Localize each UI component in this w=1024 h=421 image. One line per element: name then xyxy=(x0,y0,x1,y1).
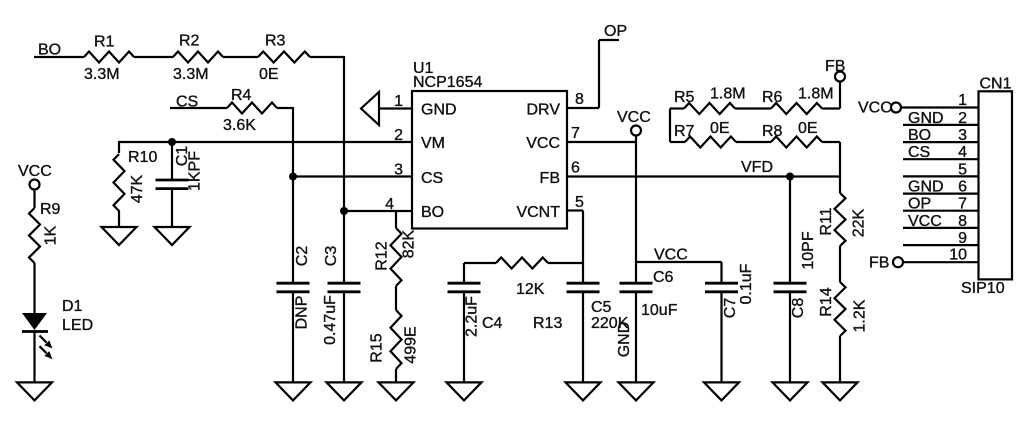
resistor R9 xyxy=(29,208,40,263)
IC U1 box xyxy=(412,91,567,229)
capacitor C6 xyxy=(635,262,637,283)
ground D1 xyxy=(17,382,52,400)
resistor R1 xyxy=(84,52,134,63)
wire R9 to D1 xyxy=(33,263,35,313)
svg-text:6: 6 xyxy=(958,179,967,196)
LED arrow 1 xyxy=(40,336,47,343)
svg-text:VCNT: VCNT xyxy=(516,204,560,221)
svg-text:R13: R13 xyxy=(533,315,562,332)
svg-text:R4: R4 xyxy=(231,87,252,104)
svg-text:VCC: VCC xyxy=(654,247,688,264)
svg-text:3.3M: 3.3M xyxy=(173,66,209,83)
capacitor C3 xyxy=(343,211,345,283)
ground C1 xyxy=(155,227,190,245)
resistor R5 xyxy=(684,103,735,114)
wire CN1 pin 5 xyxy=(903,175,979,177)
svg-text:CS: CS xyxy=(421,170,443,187)
resistor R15 xyxy=(391,310,402,369)
svg-text:3.3M: 3.3M xyxy=(84,66,120,83)
wire D1 to ground xyxy=(33,332,35,384)
capacitor C4 xyxy=(463,263,465,283)
svg-text:GND: GND xyxy=(421,102,457,119)
wire R11-R14 xyxy=(839,246,841,282)
wire C2 to ground xyxy=(292,292,294,383)
wire CS net xyxy=(170,107,227,109)
wire VM net (pin 2 row) xyxy=(119,141,412,143)
node pin4 junction xyxy=(340,207,348,215)
svg-text:FB: FB xyxy=(540,170,560,187)
wire R6 to FB terminal xyxy=(822,107,840,109)
svg-text:R12: R12 xyxy=(374,241,391,270)
svg-text:DNP: DNP xyxy=(294,296,311,330)
svg-text:82K: 82K xyxy=(401,229,418,258)
node C1 junction xyxy=(168,138,176,146)
wire CN1 pin 7 xyxy=(903,210,979,212)
wire CN1 pin 10 xyxy=(903,261,979,263)
wire R14 to ground xyxy=(839,336,841,383)
svg-text:0E: 0E xyxy=(710,120,730,137)
wire R2-R3 xyxy=(223,56,258,58)
wire CN1 pin 6 xyxy=(903,193,979,195)
wire CS column vertical xyxy=(292,107,294,177)
wire pin 6 VFD net xyxy=(567,175,840,177)
svg-text:GND: GND xyxy=(908,110,944,127)
wire VCC rail vertical xyxy=(635,135,637,262)
wire R1-R2 xyxy=(134,56,173,58)
resistor R2 xyxy=(173,52,223,63)
svg-text:D1: D1 xyxy=(62,298,83,315)
svg-text:47K: 47K xyxy=(129,174,146,203)
svg-text:C6: C6 xyxy=(653,269,674,286)
svg-text:3: 3 xyxy=(958,127,967,144)
svg-text:VCC: VCC xyxy=(526,135,560,152)
svg-text:1KPF: 1KPF xyxy=(187,151,204,191)
wire pin 1 stub xyxy=(379,107,412,109)
svg-text:VM: VM xyxy=(421,135,445,152)
svg-text:VCC: VCC xyxy=(908,213,942,230)
svg-text:2: 2 xyxy=(958,110,967,127)
wire CN1 pin 8 xyxy=(903,227,979,229)
svg-text:10uF: 10uF xyxy=(641,302,678,319)
wire pin 7 stub xyxy=(567,141,636,143)
wire pin 8 stub xyxy=(567,107,599,109)
svg-text:C2: C2 xyxy=(294,246,311,267)
wire R7 row left xyxy=(670,141,685,143)
svg-text:3.6K: 3.6K xyxy=(223,117,256,134)
ground C2 xyxy=(276,382,311,400)
svg-text:1K: 1K xyxy=(43,225,60,245)
wire VCC to R9 xyxy=(33,189,35,208)
ground R15 xyxy=(379,382,414,400)
svg-text:0E: 0E xyxy=(798,120,818,137)
svg-text:0.47uF: 0.47uF xyxy=(322,295,339,345)
node FB terminal top xyxy=(835,72,845,82)
wire pin 4 row xyxy=(344,210,412,212)
svg-text:BO: BO xyxy=(421,204,444,221)
wire R10 to ground xyxy=(118,210,120,228)
svg-text:1.2K: 1.2K xyxy=(852,299,869,332)
svg-text:7: 7 xyxy=(571,125,580,142)
ground R14 xyxy=(823,382,858,400)
resistor R4 xyxy=(227,103,277,114)
resistor R14 xyxy=(835,282,846,336)
svg-text:10: 10 xyxy=(949,247,967,264)
svg-text:1.8M: 1.8M xyxy=(710,86,746,103)
svg-text:22K: 22K xyxy=(851,208,868,237)
wire C5 to ground xyxy=(582,292,584,383)
ground arrow pin 1 xyxy=(361,92,379,125)
svg-text:7: 7 xyxy=(958,196,967,213)
svg-text:CS: CS xyxy=(908,144,930,161)
svg-text:VCC: VCC xyxy=(617,109,651,126)
wire CN1 pin 1 xyxy=(901,106,979,108)
wire C6 to ground xyxy=(635,292,637,383)
svg-text:R2: R2 xyxy=(179,33,200,50)
ground C8 xyxy=(773,382,808,400)
resistor R6 xyxy=(771,103,822,114)
svg-text:VCC: VCC xyxy=(18,163,52,180)
LED arrow 2 xyxy=(40,346,47,353)
svg-text:OP: OP xyxy=(604,23,627,40)
svg-text:R15: R15 xyxy=(369,333,386,362)
wire pin 3 row xyxy=(293,175,412,177)
wire R15 to ground xyxy=(395,369,397,383)
svg-text:GND: GND xyxy=(908,179,944,196)
capacitor C2 xyxy=(292,177,294,284)
svg-text:R3: R3 xyxy=(265,33,286,50)
wire R13 row left xyxy=(464,262,496,264)
wire R5-R6 xyxy=(735,107,771,109)
svg-text:R11: R11 xyxy=(818,207,835,235)
svg-text:NCP1654: NCP1654 xyxy=(413,74,482,91)
svg-text:DRV: DRV xyxy=(527,102,561,119)
svg-text:C3: C3 xyxy=(323,246,340,267)
svg-text:1: 1 xyxy=(958,92,967,109)
svg-text:CN1: CN1 xyxy=(980,76,1012,93)
resistor R7 xyxy=(685,137,736,148)
wire R8 to VFD column xyxy=(822,141,840,143)
resistor R8 xyxy=(771,137,822,148)
ground C4 xyxy=(447,382,482,400)
wire VCNT column xyxy=(582,211,584,284)
svg-text:OP: OP xyxy=(908,196,931,213)
node VCC terminal mid xyxy=(631,126,641,136)
svg-text:C7: C7 xyxy=(722,298,739,319)
wire C4 to ground xyxy=(463,292,465,383)
svg-text:5: 5 xyxy=(958,161,967,178)
svg-text:R1: R1 xyxy=(94,34,115,51)
svg-text:VFD: VFD xyxy=(741,159,773,176)
wire R3 to BO column xyxy=(310,56,344,58)
capacitor C7 xyxy=(720,262,722,283)
wire C7 to ground xyxy=(720,292,722,383)
svg-text:2: 2 xyxy=(394,127,403,144)
svg-text:R5: R5 xyxy=(674,89,695,106)
resistor R10 xyxy=(118,141,120,153)
svg-text:R8: R8 xyxy=(762,123,783,140)
resistor R3 xyxy=(258,52,310,63)
wire CN1 pin 4 xyxy=(903,158,979,160)
resistor R11 xyxy=(839,177,841,194)
svg-text:VCC: VCC xyxy=(858,100,892,117)
svg-text:BO: BO xyxy=(908,127,931,144)
svg-text:4: 4 xyxy=(958,144,967,161)
wire R13 to C5 column xyxy=(548,262,583,264)
svg-text:R10: R10 xyxy=(128,149,157,166)
svg-text:10PF: 10PF xyxy=(800,231,817,269)
capacitor C1 xyxy=(171,142,173,180)
capacitor C5 xyxy=(567,282,600,285)
svg-text:12K: 12K xyxy=(516,281,545,298)
wire CN1 pin 2 xyxy=(903,124,979,126)
wire CN1 pin 3 xyxy=(903,141,979,143)
svg-text:2.2uF: 2.2uF xyxy=(464,296,481,337)
wire R4 to CS column xyxy=(277,107,293,109)
svg-text:FB: FB xyxy=(869,255,889,272)
svg-text:R9: R9 xyxy=(40,201,61,218)
wire CN1 pin 9 xyxy=(903,244,979,246)
svg-text:R6: R6 xyxy=(762,89,783,106)
wire R7-R8 xyxy=(736,141,771,143)
svg-text:0.1uF: 0.1uF xyxy=(738,263,755,304)
connector CN1 box xyxy=(979,91,1013,279)
svg-text:1.8M: 1.8M xyxy=(798,86,834,103)
svg-text:LED: LED xyxy=(62,317,93,334)
svg-text:6: 6 xyxy=(571,160,580,177)
svg-text:3: 3 xyxy=(394,162,403,179)
svg-text:GND: GND xyxy=(616,322,633,358)
svg-text:0E: 0E xyxy=(259,66,279,83)
svg-text:1: 1 xyxy=(394,93,403,110)
ground C5 xyxy=(566,382,601,400)
svg-text:8: 8 xyxy=(958,213,967,230)
ground C7 xyxy=(704,382,739,400)
wire BO net xyxy=(34,56,84,58)
svg-text:SIP10: SIP10 xyxy=(961,280,1005,297)
ground R10 xyxy=(102,227,137,245)
wire BO column vertical xyxy=(343,56,345,211)
wire R12-R15 xyxy=(395,286,397,310)
svg-text:8: 8 xyxy=(575,91,584,108)
wire C1 to ground xyxy=(171,189,173,228)
node pin3 junction xyxy=(289,173,297,181)
svg-text:499E: 499E xyxy=(403,326,420,363)
svg-text:C8: C8 xyxy=(790,298,807,319)
ground C6 xyxy=(619,382,654,400)
resistor R12 xyxy=(395,211,397,228)
svg-text:FB: FB xyxy=(825,58,845,75)
resistor R13 xyxy=(496,258,548,269)
svg-text:C4: C4 xyxy=(482,315,503,332)
wire VCC rail horizontal xyxy=(636,261,722,263)
node OP label xyxy=(599,39,619,41)
LED D1 xyxy=(22,313,47,330)
wire pin 5 stub xyxy=(567,209,583,211)
svg-text:5: 5 xyxy=(575,194,584,211)
wire OP column xyxy=(598,40,600,108)
svg-text:C5: C5 xyxy=(591,299,612,316)
wire R5-R7 bracket xyxy=(669,109,671,143)
svg-text:9: 9 xyxy=(958,230,967,247)
wire C8 to ground xyxy=(789,292,791,383)
svg-text:R7: R7 xyxy=(674,123,695,140)
ground C3 xyxy=(327,382,362,400)
svg-text:4: 4 xyxy=(385,196,394,213)
svg-text:R14: R14 xyxy=(818,287,835,316)
node VFD junction xyxy=(786,173,794,181)
capacitor C8 xyxy=(789,177,791,284)
wire C3 to ground xyxy=(343,292,345,383)
